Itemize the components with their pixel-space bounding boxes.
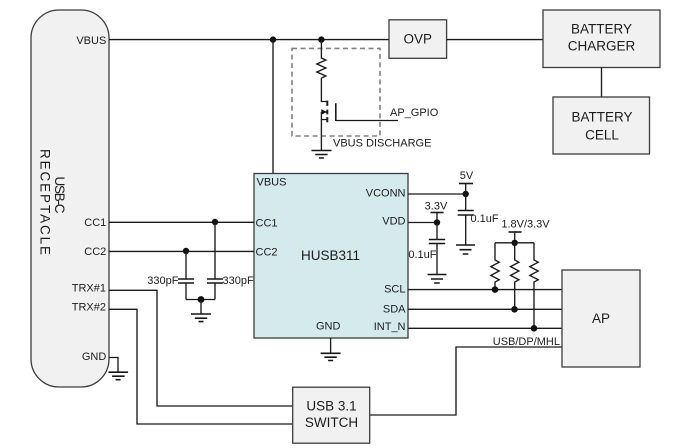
wire capacitor join bbox=[186, 299, 215, 301]
svg-text:CC2: CC2 bbox=[84, 246, 106, 258]
label USB/DP/MHL bbox=[493, 336, 560, 348]
node SCL pull-up bbox=[492, 286, 499, 293]
capacitor C2 330pF (on CC1) bbox=[207, 222, 223, 300]
svg-text:VDD: VDD bbox=[382, 216, 405, 228]
resistor R2 (SCL pull-up) bbox=[491, 243, 499, 290]
AP block bbox=[562, 270, 640, 367]
wire Q1 gate to AP_GPIO bbox=[336, 120, 398, 122]
BATTERY CELL block bbox=[553, 97, 650, 154]
svg-text:330pF: 330pF bbox=[147, 275, 178, 287]
USB 3.1 SWITCH block bbox=[293, 387, 370, 443]
wire VCONN to 5V node bbox=[408, 193, 466, 195]
wire VBUS: receptacle to OVP bbox=[109, 39, 389, 41]
wire TRX#1 to USB switch bbox=[109, 290, 293, 406]
capacitor C3 0.1uF (VCONN) bbox=[458, 194, 474, 245]
svg-text:SWITCH: SWITCH bbox=[305, 415, 358, 430]
ground (HUSB311) bbox=[321, 353, 341, 360]
svg-text:VBUS: VBUS bbox=[76, 35, 106, 47]
node VBUS to discharge junction bbox=[318, 36, 324, 42]
resistor R3 (SDA pull-up) bbox=[511, 243, 519, 309]
node VCONN/5V bbox=[463, 191, 469, 197]
supply 3.3V bbox=[425, 201, 448, 223]
svg-text:OVP: OVP bbox=[403, 31, 432, 46]
svg-text:CC2: CC2 bbox=[256, 247, 278, 259]
svg-text:TRX#1: TRX#1 bbox=[72, 282, 106, 294]
svg-text:RECEPTACLE: RECEPTACLE bbox=[38, 149, 53, 255]
svg-text:GND: GND bbox=[316, 321, 341, 333]
svg-text:CELL: CELL bbox=[585, 128, 619, 143]
wire VDD to 3.3V node bbox=[408, 222, 437, 224]
svg-text:USB 3.1: USB 3.1 bbox=[306, 398, 356, 413]
svg-text:0.1uF: 0.1uF bbox=[408, 249, 436, 261]
wire USB/DP/MHL: AP to USB switch bbox=[370, 347, 562, 415]
node capacitor join bbox=[198, 296, 205, 303]
svg-text:1.8V/3.3V: 1.8V/3.3V bbox=[501, 219, 550, 231]
node INT_N pull-up bbox=[531, 325, 538, 332]
label C2 330pF bbox=[223, 275, 254, 287]
node VBUS to HUSB311 junction bbox=[270, 36, 276, 42]
supply 5V bbox=[459, 170, 474, 194]
svg-text:5V: 5V bbox=[460, 170, 474, 182]
node VDD/3.3V bbox=[434, 219, 440, 225]
wire HUSB311 GND pin bbox=[330, 338, 332, 353]
svg-text:BATTERY: BATTERY bbox=[571, 110, 632, 125]
BATTERY CHARGER block bbox=[543, 10, 660, 68]
wire pull-up rail bbox=[495, 242, 534, 244]
ground (CC caps) bbox=[191, 300, 211, 322]
svg-text:0.1uF: 0.1uF bbox=[471, 213, 499, 225]
label VBUS DISCHARGE bbox=[333, 138, 431, 150]
ground (C4) bbox=[428, 275, 447, 284]
wire VBUS down to HUSB311 VBUS pin bbox=[272, 40, 274, 174]
USB-C receptacle J1 bbox=[31, 10, 109, 387]
svg-text:USB/DP/MHL: USB/DP/MHL bbox=[493, 336, 560, 348]
svg-text:CC1: CC1 bbox=[84, 217, 106, 229]
label C1 330pF bbox=[147, 275, 178, 287]
svg-text:USB-C: USB-C bbox=[52, 177, 67, 214]
ground (VBUS discharge source) bbox=[312, 151, 332, 159]
transistor Q1 (NMOS VBUS discharge) bbox=[321, 101, 336, 151]
HUSB311 U1 bbox=[254, 174, 408, 339]
svg-text:CC1: CC1 bbox=[256, 217, 278, 229]
svg-text:VBUS: VBUS bbox=[257, 177, 287, 189]
capacitor C1 330pF (on CC2) bbox=[178, 251, 194, 300]
svg-text:AP_GPIO: AP_GPIO bbox=[390, 107, 439, 119]
wire TRX#2 to USB switch bbox=[109, 309, 293, 424]
svg-text:VBUS DISCHARGE: VBUS DISCHARGE bbox=[333, 138, 431, 150]
supply 1.8V/3.3V bbox=[501, 219, 550, 243]
ground (C3) bbox=[456, 245, 475, 254]
node CC2/C1 junction bbox=[183, 248, 189, 254]
svg-text:SCL: SCL bbox=[384, 283, 405, 295]
svg-text:GND: GND bbox=[82, 351, 107, 363]
wire OVP to battery charger bbox=[447, 39, 543, 41]
svg-text:INT_N: INT_N bbox=[374, 321, 406, 333]
capacitor C4 0.1uF (VDD) bbox=[429, 223, 445, 275]
label C3 0.1uF bbox=[471, 213, 499, 225]
wire CC1 bbox=[109, 221, 254, 223]
node SDA pull-up bbox=[511, 306, 518, 313]
wire SCL bbox=[408, 289, 562, 291]
svg-text:330pF: 330pF bbox=[223, 275, 254, 287]
svg-text:TRX#2: TRX#2 bbox=[72, 301, 106, 313]
resistor R1 (VBUS discharge) bbox=[317, 40, 326, 78]
label AP_GPIO bbox=[390, 107, 439, 119]
node pull-up rail bbox=[512, 240, 518, 246]
svg-text:AP: AP bbox=[592, 311, 610, 326]
ground (receptacle) bbox=[109, 372, 129, 380]
wire CC2 bbox=[109, 250, 254, 252]
wire receptacle GND bbox=[109, 358, 118, 373]
svg-text:3.3V: 3.3V bbox=[425, 201, 448, 213]
svg-text:CHARGER: CHARGER bbox=[568, 39, 636, 54]
svg-text:BATTERY: BATTERY bbox=[571, 22, 632, 37]
svg-text:VCONN: VCONN bbox=[366, 188, 406, 200]
node CC1/C2 junction bbox=[212, 219, 218, 225]
resistor R4 (INT_N pull-up) bbox=[530, 243, 538, 328]
wire SDA bbox=[408, 308, 562, 310]
wire battery charger to battery cell bbox=[601, 68, 603, 98]
OVP block bbox=[389, 20, 447, 59]
wire INT_N bbox=[408, 327, 562, 329]
label C4 0.1uF bbox=[408, 249, 436, 261]
wire R1 to Q1 drain bbox=[321, 78, 327, 102]
VBUS discharge dashed enclosure bbox=[292, 48, 380, 136]
svg-text:SDA: SDA bbox=[383, 303, 406, 315]
svg-text:HUSB311: HUSB311 bbox=[301, 248, 360, 263]
